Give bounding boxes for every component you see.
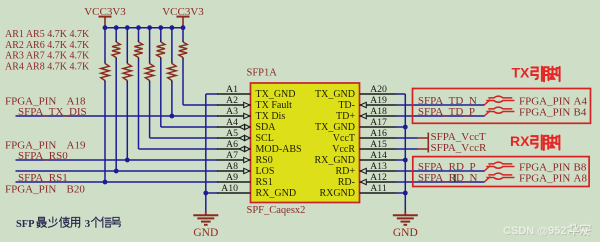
resistor AR2 4.7K with wire column 2 xyxy=(112,28,120,171)
junction dot column 1 on row y=182 xyxy=(103,180,108,185)
svg-text:RXGND: RXGND xyxy=(319,188,355,199)
wire: VCC3V3 pull-up bus xyxy=(105,27,183,29)
net label SFPA_VccT xyxy=(431,131,486,143)
svg-text:A8: A8 xyxy=(574,172,588,184)
svg-text:RX_GND: RX_GND xyxy=(256,188,297,199)
ground symbol GND (left) xyxy=(193,211,218,239)
junction dot right rail y=127 xyxy=(403,125,408,130)
svg-text:RD-: RD- xyxy=(338,177,355,188)
highlight box TX pins xyxy=(413,89,591,124)
svg-text:A15: A15 xyxy=(370,139,387,150)
svg-text:MOD-ABS: MOD-ABS xyxy=(256,144,302,155)
svg-text:A11: A11 xyxy=(370,183,387,194)
text part name SPF_Caqesx2 xyxy=(247,205,306,216)
svg-text:FPGA_PIN: FPGA_PIN xyxy=(519,172,570,184)
junction dot on VCC bus at column 1 xyxy=(103,25,108,30)
svg-text:TX: TX xyxy=(512,65,531,81)
pin A4 SDA (left) xyxy=(217,117,276,133)
pin A14 RX_GND (right) xyxy=(314,150,396,166)
title text TX引脚 xyxy=(512,65,560,82)
resistor AR6 4.7K with wire column 6 xyxy=(157,28,218,127)
bar joining VccT/VccR stubs xyxy=(427,133,429,153)
svg-text:GND: GND xyxy=(193,227,218,239)
svg-text:A17: A17 xyxy=(370,117,387,128)
pin A18 TD+ (right) xyxy=(336,106,396,122)
svg-text:TX Dis: TX Dis xyxy=(256,111,286,122)
text label FPGA_PIN A18 xyxy=(5,95,86,107)
wire unlabeled (LOS) to left pin row y=171 xyxy=(16,170,219,172)
text label FPGA_PIN B20 xyxy=(5,183,85,195)
pin A17 TX_GND (right) xyxy=(315,117,397,133)
differential pair marker TD_N xyxy=(484,96,514,105)
svg-text:A7: A7 xyxy=(226,150,238,161)
svg-text:SFPA_RD_N: SFPA_RD_N xyxy=(418,172,478,184)
svg-text:B4: B4 xyxy=(574,106,587,118)
svg-text:B20: B20 xyxy=(67,183,86,195)
svg-text:A20: A20 xyxy=(370,84,387,95)
junction dot on VCC bus at column 7 xyxy=(170,25,175,30)
svg-text:A1: A1 xyxy=(226,84,238,95)
pin A6 MOD-ABS (left) xyxy=(217,139,302,155)
svg-text:AR1 AR5 4.7K 4.7K: AR1 AR5 4.7K 4.7K xyxy=(5,29,90,40)
svg-text:SPF_Caqesx2: SPF_Caqesx2 xyxy=(247,205,306,216)
svg-text:SFPA_TX_DIS: SFPA_TX_DIS xyxy=(18,106,87,118)
svg-text:A12: A12 xyxy=(370,172,387,183)
svg-text:CSDN @9527: CSDN @9527 xyxy=(503,225,572,237)
svg-text:A9: A9 xyxy=(226,172,238,183)
highlight box RX pins xyxy=(413,157,589,187)
svg-text:A14: A14 xyxy=(370,150,387,161)
svg-text:AR2 AR6 4.7K 4.7K: AR2 AR6 4.7K 4.7K xyxy=(5,40,90,51)
svg-text:FPGA_PIN: FPGA_PIN xyxy=(5,183,56,195)
svg-text:A5: A5 xyxy=(226,128,238,139)
svg-text:A13: A13 xyxy=(370,161,387,172)
differential pair marker TD_P xyxy=(484,107,514,116)
svg-text:3: 3 xyxy=(85,218,91,230)
svg-text:AR4 AR8 4.7K 4.7K: AR4 AR8 4.7K 4.7K xyxy=(5,61,90,72)
svg-text:RX: RX xyxy=(510,133,530,149)
resistor AR8 4.7K with wire column 8 xyxy=(179,28,218,105)
svg-text:SCL: SCL xyxy=(256,133,274,144)
differential pair marker RD_N xyxy=(484,173,514,182)
op chip U SFP1A body xyxy=(251,83,360,203)
svg-text:A8: A8 xyxy=(226,161,238,172)
pin A13 RD+ (right) xyxy=(335,161,396,177)
text caret artifact in SFPA_RD_N xyxy=(454,174,456,183)
svg-text:RS1: RS1 xyxy=(256,177,273,188)
wire SFPA_VccR xyxy=(397,148,429,150)
net label SFPA_TD_N xyxy=(418,95,477,107)
title text RX引脚 xyxy=(510,133,559,150)
svg-text:A18: A18 xyxy=(67,95,86,107)
note text SFP 最少使用 3个信号 xyxy=(16,217,121,230)
pin A20 TX_GND (right) xyxy=(315,84,397,100)
junction dot column 3 on row y=160 xyxy=(125,158,130,163)
svg-text:A3: A3 xyxy=(226,106,238,117)
svg-text:AR3 AR7 4.7K 4.7K: AR3 AR7 4.7K 4.7K xyxy=(5,51,90,62)
junction dot right rail y=193 xyxy=(403,191,408,196)
svg-text:VccT: VccT xyxy=(333,133,355,144)
svg-text:TX Fault: TX Fault xyxy=(256,100,293,111)
svg-text:TD-: TD- xyxy=(338,100,355,111)
wire SFPA_TD_P xyxy=(397,115,485,117)
text label FPGA_PIN B4 xyxy=(519,106,587,118)
svg-text:GND: GND xyxy=(393,227,418,239)
svg-text:A19: A19 xyxy=(67,140,86,152)
svg-text:A6: A6 xyxy=(226,139,238,150)
junction dot right rail y=160 xyxy=(403,158,408,163)
wire SFPA_TD_N xyxy=(397,104,485,106)
svg-text:FPGA_PIN: FPGA_PIN xyxy=(5,140,56,152)
junction dot column 2 on row y=171 xyxy=(114,169,119,174)
junction dot column 7 on row y=116 xyxy=(170,114,175,119)
pin A5 SCL (left) xyxy=(217,128,274,144)
wire right GND rail (A20/A17/A14/A11) xyxy=(397,94,406,211)
svg-text:RD+: RD+ xyxy=(335,166,355,177)
svg-text:LOS: LOS xyxy=(256,166,275,177)
watermark CSDN @9527华安 xyxy=(503,224,591,238)
junction dot on VCC bus at column 6 xyxy=(158,25,163,30)
resistor AR3 4.7K with wire column 3 xyxy=(123,28,131,160)
wire TX_GND/RX_GND to left GND rail xyxy=(206,94,218,211)
svg-text:A18: A18 xyxy=(370,106,387,117)
power symbol VCC3V3 #2 xyxy=(162,6,204,28)
text label FPGA_PIN B8 xyxy=(519,161,587,173)
text label FPGA_PIN A19 xyxy=(5,140,86,152)
pin A3 TX Dis (left) xyxy=(217,106,285,122)
differential pair marker RD_P xyxy=(484,162,514,171)
junction dot left rail at A10 xyxy=(203,191,208,196)
svg-text:TX_GND: TX_GND xyxy=(315,122,355,133)
junction dot on VCC bus at column 8 xyxy=(181,25,186,30)
svg-text:RS0: RS0 xyxy=(256,155,273,166)
wire SFPA_TX_DIS to left pin row y=116 xyxy=(16,115,219,117)
net label SFPA_RD_N xyxy=(418,172,478,184)
svg-text:TX_GND: TX_GND xyxy=(256,89,296,100)
resistor AR1 4.7K with wire column 1 xyxy=(101,28,109,182)
ground symbol GND (right) xyxy=(393,211,418,239)
svg-text:TX_GND: TX_GND xyxy=(315,89,355,100)
wire SFPA_VccT xyxy=(397,137,429,139)
junction dot on VCC bus at column 4 xyxy=(136,25,141,30)
svg-text:A2: A2 xyxy=(226,95,238,106)
svg-text:SDA: SDA xyxy=(256,122,277,133)
text label FPGA_PIN A8 xyxy=(519,172,587,184)
svg-text:A4: A4 xyxy=(226,117,238,128)
pin A19 TD- (right) xyxy=(338,95,396,111)
junction dot on VCC bus at column 5 xyxy=(147,25,152,30)
svg-text:RX_GND: RX_GND xyxy=(314,155,355,166)
net label SFPA_TD_P xyxy=(418,106,475,118)
svg-text:FPGA_PIN: FPGA_PIN xyxy=(519,106,570,118)
wire SFPA_RS0 to left pin row y=160 xyxy=(16,159,219,161)
svg-text:FPGA_PIN: FPGA_PIN xyxy=(5,95,56,107)
junction dot on VCC bus at column 2 xyxy=(114,25,119,30)
svg-text:VccR: VccR xyxy=(332,144,355,155)
pin A9 RS1 (left) xyxy=(217,172,273,188)
wire SFPA_RD_P xyxy=(397,170,485,172)
pin A15 VccR (right) xyxy=(332,139,396,155)
pin A12 RD- (right) xyxy=(338,172,397,188)
svg-text:SFP: SFP xyxy=(16,219,35,230)
resistor AR7 4.7K with wire column 7 xyxy=(168,28,176,116)
text label FPGA_PIN A4 xyxy=(519,95,587,107)
wire SFPA_RS1 to left pin row y=182 xyxy=(16,181,219,183)
svg-text:A16: A16 xyxy=(370,128,387,139)
svg-text:A19: A19 xyxy=(370,95,387,106)
pin A1 TX_GND (left) xyxy=(217,84,296,100)
pin A7 RS0 (left) xyxy=(217,150,273,166)
pin A2 TX Fault (left) xyxy=(217,95,292,111)
power symbol VCC3V3 #1 xyxy=(84,6,126,28)
pin A10 RX_GND (left) xyxy=(217,183,296,199)
text designator SFP1A xyxy=(247,68,278,79)
wire SFPA_RD_N xyxy=(397,181,485,183)
pin A8 LOS (left) xyxy=(217,161,274,177)
svg-text:TD+: TD+ xyxy=(336,111,355,122)
junction dot on VCC bus at column 3 xyxy=(125,25,130,30)
svg-text:SFP1A: SFP1A xyxy=(247,68,278,79)
pin A16 VccT (right) xyxy=(333,128,397,144)
svg-text:SFPA_RS0: SFPA_RS0 xyxy=(18,150,68,162)
net label SFPA_VccR xyxy=(431,142,487,154)
net label SFPA_RD_P xyxy=(418,161,476,173)
svg-text:A10: A10 xyxy=(221,183,238,194)
resistor AR4 4.7K with wire column 4 xyxy=(134,28,218,149)
svg-text:SFPA_TD_P: SFPA_TD_P xyxy=(418,106,475,118)
svg-text:SFPA_VccR: SFPA_VccR xyxy=(431,142,487,154)
resistor AR5 4.7K with wire column 5 xyxy=(145,28,218,138)
pin A11 RXGND (right) xyxy=(319,183,396,199)
text resistor designators AR1..AR8 values xyxy=(5,29,90,72)
